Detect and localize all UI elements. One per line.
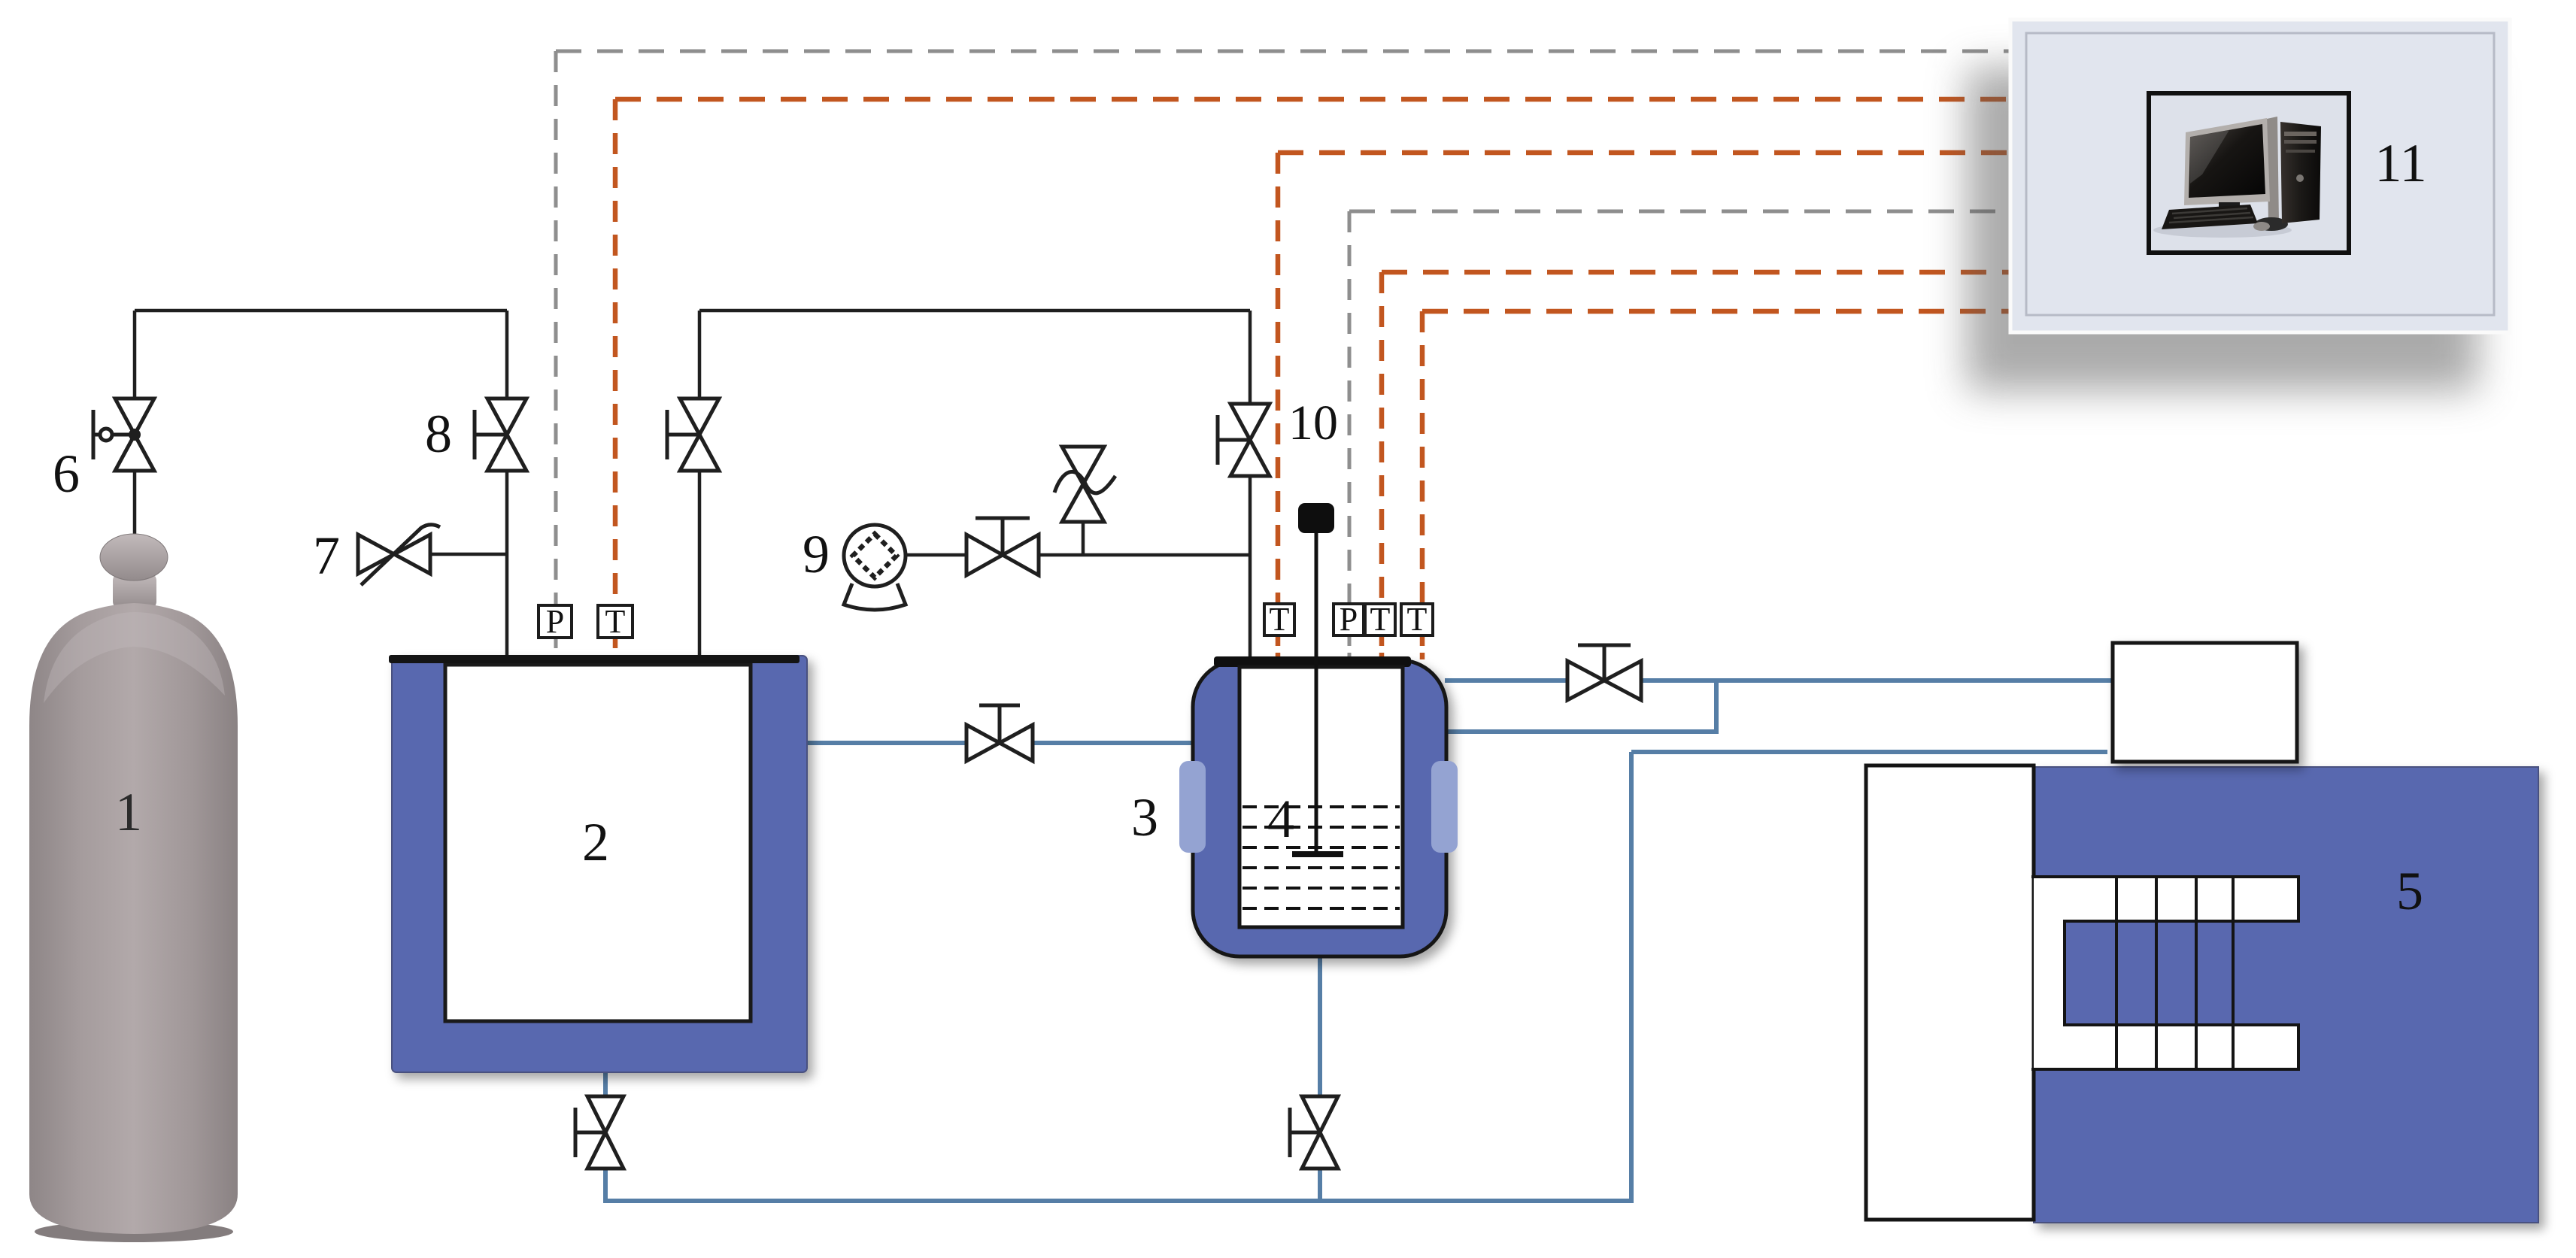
wire: black pipe valve10 to reactor lid [1249, 474, 1252, 660]
valve (blue pipe vessel2 to reactor) [966, 705, 1033, 761]
valve 8 [475, 399, 526, 471]
vessel 2 inner cavity [445, 665, 751, 1021]
computer photo frame [2149, 93, 2349, 253]
gas cylinder neck [113, 573, 156, 609]
wire: black pipe relief valve stem [1082, 522, 1085, 555]
wire: grey dashed stub P(reactor) [1348, 635, 1352, 659]
wire: black pipe vessel2 second riser lower [698, 469, 702, 656]
svg-text:T: T [1270, 601, 1290, 638]
wire: blue pipe vessel2 drain below valve [603, 1167, 608, 1203]
sensor box P (vessel 2) [539, 605, 572, 638]
wire: black pipe cylinder rail to valve8 riser [135, 309, 507, 313]
vessel 2 lid [389, 655, 800, 663]
heat exchanger tube wall d [2232, 877, 2235, 1069]
reactor right handle [1431, 761, 1458, 853]
svg-text:7: 7 [313, 526, 340, 586]
svg-text:3: 3 [1131, 787, 1158, 847]
wire: orange dashed signal T3(reactor) vertical [1420, 311, 1425, 604]
valve 6 (cylinder outlet) [93, 399, 154, 471]
wire: blue pipe downcomer to bottom drain line [1629, 752, 1634, 1203]
gas cylinder base shadow [35, 1221, 233, 1242]
computer inner frame line [2026, 33, 2494, 315]
computer picture [2153, 117, 2321, 238]
svg-text:6: 6 [53, 444, 80, 504]
wire: orange dashed stub T2(reactor) [1379, 635, 1385, 659]
stirrer motor [1298, 503, 1334, 533]
wire: black pipe valve7 branch [430, 553, 507, 556]
svg-text:T: T [1407, 601, 1428, 638]
svg-text:P: P [546, 603, 564, 640]
heat exchanger tube wall a [2115, 877, 2118, 1069]
drain valve (vessel 2 bottom) [575, 1096, 624, 1169]
svg-text:4: 4 [1267, 789, 1294, 849]
wire: black pipe globe valve to valve10 riser [1037, 553, 1250, 557]
sensor box T1 (reactor) [1264, 604, 1294, 635]
wire: blue pipe vessel2 right wall to reactor left [799, 741, 1196, 745]
reactor left handle [1179, 761, 1206, 853]
wire: black pipe top rail to valve10 [699, 309, 1250, 313]
computer shadow [1967, 68, 2478, 391]
wire: orange dashed signal T2(reactor) vertical [1379, 272, 1385, 604]
heat exchanger upper channel [2034, 877, 2298, 921]
sensor box T2 (reactor) [1365, 604, 1395, 635]
wire: black pipe valve8 riser upper [505, 311, 509, 400]
heat exchanger top edge [2031, 875, 2298, 878]
stirrer 4 paddle [1292, 851, 1343, 857]
wire: blue pipe return line to bath pump box bottom [1631, 750, 2107, 754]
globe valve (pump line) [966, 518, 1039, 575]
reactor inner vessel [1239, 667, 1403, 927]
heat exchanger right cap upper [2297, 875, 2300, 923]
wire: black pipe vessel2 second riser upper [698, 311, 702, 400]
heat exchanger right cap lower [2297, 1023, 2300, 1071]
svg-text:T: T [1370, 601, 1391, 638]
wire: black pipe pump to globe valve [906, 553, 968, 557]
computer outer panel [2010, 20, 2510, 332]
wire: blue pipe reactor drain stub [1318, 955, 1322, 1099]
wire: blue pipe vessel2 drain stub [603, 1071, 608, 1099]
sensor box T3 (reactor) [1401, 604, 1433, 635]
wire: orange dashed stub T1(reactor) [1276, 635, 1281, 659]
heat exchanger tube wall c [2195, 877, 2198, 1069]
wire: orange dashed signal T2(reactor) horizontal to computer [1382, 270, 2027, 275]
reactor 3 jacket [1193, 660, 1446, 956]
svg-text:10: 10 [1288, 396, 1338, 450]
gas cylinder knob [100, 534, 168, 580]
heat exchanger middle block [2065, 921, 2233, 1025]
wire: blue pipe riser joining lower port to upper line [1714, 678, 1719, 734]
sensor box T (vessel 2) [598, 605, 633, 638]
wire: orange dashed signal T(vessel2) vertical [613, 99, 618, 606]
wire: black pipe valve8 to vessel2 lid [505, 469, 509, 656]
wire: orange dashed signal T3(reactor) horizontal to computer [1422, 309, 2027, 314]
heat exchanger upper channel bottom edge [2065, 920, 2298, 923]
gas cylinder top highlight [44, 612, 225, 703]
heat exchanger lower channel top edge [2065, 1023, 2298, 1026]
wire: grey dashed signal P(vessel2) vertical [554, 51, 558, 606]
pump 9 [844, 525, 906, 610]
sensor box P (reactor) [1334, 604, 1364, 635]
svg-text:2: 2 [582, 812, 609, 872]
wire: grey dashed signal P(reactor) horizontal to computer [1349, 210, 2027, 214]
bath white chamber [1866, 765, 2034, 1220]
wire: grey dashed stub P(vessel2) box to lid [554, 638, 558, 656]
heat exchanger left connector channel [2034, 921, 2065, 1025]
svg-text:11: 11 [2374, 133, 2426, 193]
bath circulation unit box [2113, 643, 2297, 762]
svg-text:8: 8 [425, 404, 452, 464]
heat exchanger lower channel [2034, 1025, 2298, 1069]
svg-text:5: 5 [2396, 861, 2423, 921]
wire: black pipe valve10 riser upper [1249, 311, 1252, 405]
wire: orange dashed signal T1(reactor) vertical [1276, 153, 1281, 604]
heat exchanger bottom edge [2031, 1068, 2298, 1071]
svg-text:9: 9 [803, 524, 830, 584]
wire: black pipe valve6 to cylinder knob [133, 469, 137, 538]
wire: orange dashed signal T1(reactor) horizontal to computer [1278, 150, 2027, 156]
wire: black pipe valve6 riser upper [133, 311, 137, 400]
stirrer 4 shaft [1315, 531, 1318, 852]
valve (unlabeled, vessel2 second riser) [667, 399, 719, 471]
wire: blue pipe reactor lower right port [1445, 729, 1716, 734]
vessel 2 jacket [392, 656, 807, 1072]
svg-text:1: 1 [115, 782, 142, 842]
svg-text:P: P [1340, 601, 1358, 638]
valve (blue pipe reactor to bath) [1567, 645, 1641, 700]
gas cylinder body [29, 603, 238, 1234]
valve 7 (regulator) [358, 525, 440, 585]
wire: blue pipe reactor upper right to bath pump box [1445, 678, 2111, 683]
liquid level dashed lines [1242, 807, 1400, 908]
valve 10 [1218, 404, 1270, 476]
bath 5 body [2034, 767, 2538, 1223]
wire: orange dashed stub T(vessel2) box to lid [613, 638, 618, 656]
reactor lid [1214, 656, 1411, 667]
drain valve (reactor bottom) [1290, 1096, 1338, 1169]
heat exchanger tube wall b [2155, 877, 2158, 1069]
wire: orange dashed signal T(vessel2) horizontal to computer [615, 97, 2027, 102]
relief valve (needle) [1054, 447, 1115, 522]
wire: blue pipe bottom drain line [605, 1199, 1634, 1203]
svg-text:T: T [605, 603, 626, 640]
wire: grey dashed signal P(reactor) vertical [1348, 211, 1352, 604]
wire: orange dashed stub T3(reactor) [1420, 635, 1425, 659]
wire: grey dashed signal P(vessel2) horizontal to computer [556, 50, 2027, 53]
wire: blue pipe reactor drain below valve [1318, 1167, 1322, 1201]
